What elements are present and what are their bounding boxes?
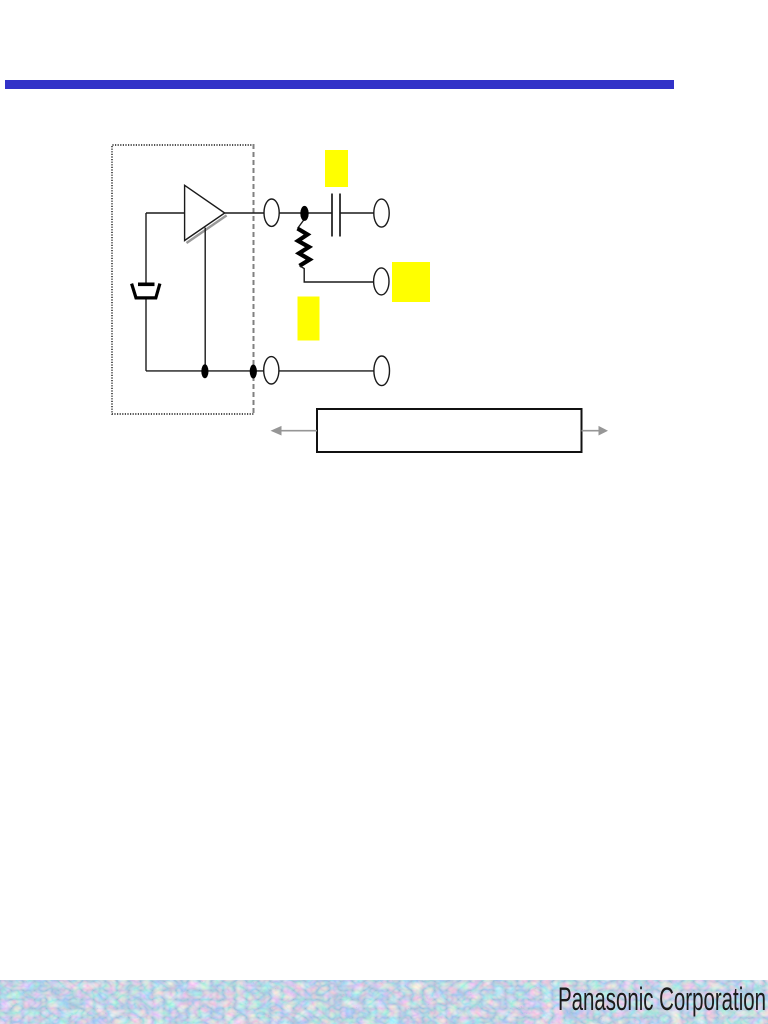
microphone capsule top plate <box>138 283 155 287</box>
title rule (blue horizontal bar) <box>5 80 674 89</box>
junction dot: ground at amp <box>201 364 208 378</box>
wire: capacitor to output terminal <box>340 212 374 214</box>
gray dashed boundary line (right edge of enclosure) <box>253 144 255 415</box>
left arrow <box>278 430 317 432</box>
op-amp shadow <box>187 215 227 243</box>
wire: left vertical to mic capsule <box>145 213 147 283</box>
microphone capsule diaphragm cup <box>132 284 160 298</box>
junction dot: ground at enclosure edge <box>250 365 257 379</box>
resistor R (load) bottom lead and wire to bias terminal <box>300 266 374 282</box>
op-amp buffer (FET impedance converter triangle) <box>185 185 225 240</box>
junction dot: output node <box>300 206 308 221</box>
svg-text:Panasonic Corporation: Panasonic Corporation <box>558 981 766 1017</box>
capacitor C (coupling) right plate <box>339 194 341 237</box>
microphone unit dotted enclosure box <box>112 145 254 414</box>
label highlight: capacitor value (yellow) <box>325 150 348 187</box>
terminal T1 (output pin inside) <box>264 199 279 226</box>
terminal T4 (ground pin inside) <box>264 357 279 384</box>
capacitor C (coupling) left plate <box>331 194 333 237</box>
label highlight: resistor value (yellow) <box>298 297 320 341</box>
wire: ground rail horizontal <box>146 370 374 372</box>
wire: amp ground vertical <box>204 228 206 371</box>
footer mosaic band <box>0 980 768 1024</box>
wire: amp output to coupling capacitor <box>225 212 332 214</box>
resistor R (load) zigzag body <box>298 229 310 266</box>
terminal T5 (ground) <box>374 356 390 386</box>
label highlight: bias terminal (yellow) <box>392 262 430 302</box>
wire: amp input horizontal <box>146 212 185 214</box>
right arrow <box>582 430 601 432</box>
callout rectangle box <box>317 409 582 452</box>
resistor R (load) top lead <box>298 219 305 229</box>
wire: mic capsule to ground rail <box>145 300 147 371</box>
terminal T2 (signal output) <box>374 199 389 227</box>
terminal T3 (bias supply) <box>374 268 389 295</box>
